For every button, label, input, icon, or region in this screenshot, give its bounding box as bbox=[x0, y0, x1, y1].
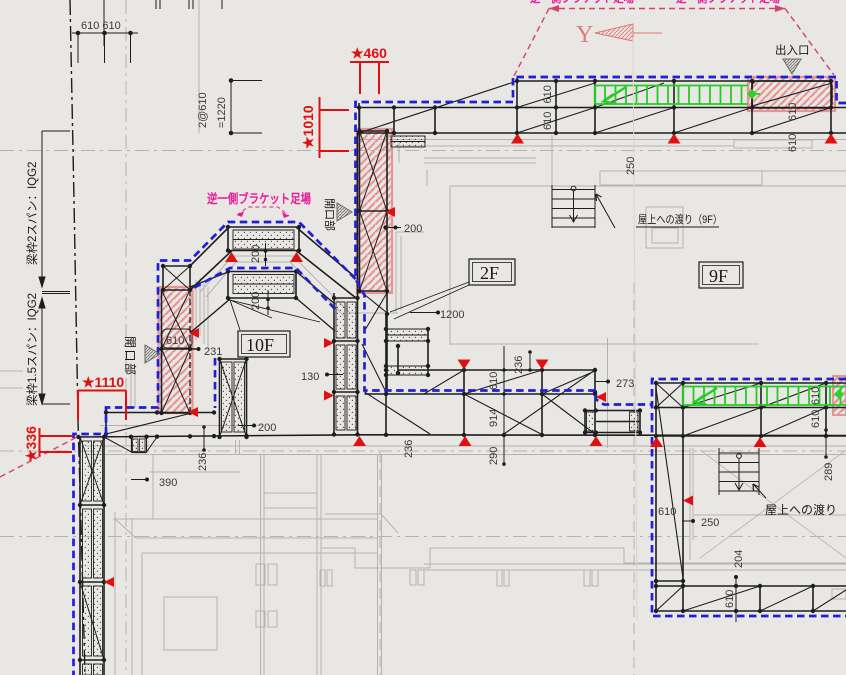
magenta clipped top texts bbox=[530, 0, 634, 5]
svg-text:200: 200 bbox=[250, 245, 262, 263]
gray hatched triangle kaikobu 2 bbox=[145, 345, 160, 363]
red star dims bbox=[23, 45, 387, 462]
dimension 610 610 top-left bbox=[72, 31, 138, 63]
building lines top right bbox=[450, 185, 846, 187]
svg-text:2@610: 2@610 bbox=[197, 92, 209, 128]
dim 236 left bbox=[203, 427, 205, 450]
svg-text:開口部: 開口部 bbox=[323, 198, 337, 231]
dim 204 bbox=[735, 577, 737, 622]
inner rounded border of top-right hatch bbox=[752, 81, 832, 108]
grid dashed line horizontal middle bbox=[0, 450, 846, 452]
dim stack 610/914/290 bbox=[503, 346, 505, 466]
svg-text:梁枠1.5スパン：IQG2: 梁枠1.5スパン：IQG2 bbox=[25, 293, 39, 406]
svg-text:9F: 9F bbox=[709, 266, 728, 286]
grid dashed vertical x634 bbox=[633, 283, 635, 675]
svg-text:204: 204 bbox=[733, 550, 745, 568]
red hatch mid-left column bbox=[159, 287, 193, 413]
svg-text:250: 250 bbox=[625, 157, 637, 175]
plank small top band left bbox=[391, 136, 425, 147]
svg-text:610: 610 bbox=[166, 335, 184, 347]
left slope rails bbox=[190, 227, 232, 290]
svg-text:200: 200 bbox=[250, 292, 262, 310]
dim 273 bbox=[595, 381, 608, 383]
svg-text:610 610: 610 610 bbox=[81, 20, 121, 32]
braces right band bbox=[362, 293, 595, 435]
building chamfer corner behind mountain bbox=[200, 256, 398, 313]
svg-text:610: 610 bbox=[724, 590, 736, 608]
red triangles down above y370 bbox=[458, 360, 471, 370]
green ladder top band bbox=[595, 86, 760, 105]
svg-text:236: 236 bbox=[403, 440, 415, 458]
floor boxes bbox=[238, 259, 743, 357]
svg-text:=1220: =1220 bbox=[216, 97, 228, 128]
svg-text:231: 231 bbox=[204, 346, 222, 358]
svg-text:610: 610 bbox=[787, 103, 799, 121]
red side triangles bbox=[189, 328, 199, 338]
svg-text:★1010: ★1010 bbox=[300, 105, 316, 149]
door frames bbox=[256, 564, 265, 585]
grid dashed line horizontal lower bbox=[0, 536, 846, 538]
small square room top right bbox=[646, 207, 683, 248]
dimension span arrows left bbox=[39, 131, 70, 404]
left edge small ticks bbox=[0, 371, 23, 388]
red triangles up mountain bbox=[225, 252, 238, 262]
leader 200 top (near hatch col) dots bbox=[394, 226, 398, 230]
Y axis marker bbox=[576, 22, 662, 48]
svg-text:610: 610 bbox=[542, 85, 554, 103]
svg-text:屋上への渡り: 屋上への渡り bbox=[765, 502, 837, 517]
svg-text:Y: Y bbox=[576, 22, 593, 48]
braces top band bbox=[359, 81, 832, 133]
svg-text:610: 610 bbox=[542, 112, 554, 130]
svg-text:200: 200 bbox=[258, 422, 276, 434]
red hatch left column (upper) bbox=[357, 129, 392, 293]
leader 1200 bbox=[410, 312, 438, 314]
top bay bbox=[228, 227, 299, 251]
dim 200 bracket top bbox=[265, 243, 267, 266]
node dots top band bbox=[357, 79, 833, 375]
svg-text:610: 610 bbox=[488, 372, 500, 390]
svg-text:236: 236 bbox=[513, 356, 525, 374]
red triangles up below main rail bbox=[353, 436, 366, 446]
leader lines 2F bbox=[390, 282, 469, 319]
rail y133 bbox=[359, 132, 846, 134]
second tier right slope bbox=[296, 272, 335, 332]
grid vertical x199 bbox=[198, 0, 200, 133]
svg-text:610: 610 bbox=[787, 134, 799, 152]
dim 289/610 right edge bbox=[825, 408, 827, 457]
gray hatched triangle deiriguchi bbox=[783, 59, 801, 74]
dim 231 bbox=[162, 348, 199, 350]
svg-text:390: 390 bbox=[159, 477, 177, 489]
svg-text:610: 610 bbox=[810, 387, 822, 405]
rail top y81 bbox=[517, 80, 832, 82]
RED triangles up below y133 bbox=[104, 134, 838, 588]
second tier left slope to column bbox=[190, 272, 230, 333]
RED dimensions bbox=[40, 62, 390, 456]
svg-text:289: 289 bbox=[823, 463, 835, 481]
svg-text:273: 273 bbox=[616, 378, 634, 390]
svg-text:914: 914 bbox=[488, 409, 500, 427]
building top edge bbox=[360, 139, 846, 141]
610 rounded tag bbox=[162, 329, 192, 348]
dim 250 right bbox=[682, 520, 693, 522]
wall double line middle bbox=[86, 446, 846, 455]
svg-text:開口部: 開口部 bbox=[123, 336, 138, 377]
building bar below top band right bbox=[734, 140, 812, 148]
svg-text:1200: 1200 bbox=[440, 309, 464, 321]
red hatch top-right rect bbox=[748, 77, 835, 111]
second tier bay bbox=[228, 272, 296, 299]
hatch column below square (x159-192) bbox=[161, 290, 163, 413]
svg-text:出入口: 出入口 bbox=[775, 43, 810, 57]
rail y107.5 bbox=[359, 107, 846, 109]
svg-text:屋上への渡り（9F）: 屋上への渡り（9F） bbox=[638, 212, 722, 226]
svg-text:610: 610 bbox=[658, 506, 676, 518]
chain line (kujikai) left bbox=[70, 0, 85, 675]
svg-text:★460: ★460 bbox=[351, 45, 387, 61]
svg-text:290: 290 bbox=[488, 447, 500, 465]
dim 236 mid bbox=[529, 352, 531, 370]
gray hatched triangle kaikobu 1 bbox=[337, 203, 352, 221]
svg-text:610: 610 bbox=[810, 410, 822, 428]
dimension 2@610=1220 line bbox=[229, 79, 262, 135]
red hatch right edge sliver bbox=[833, 376, 846, 415]
uprights top band bbox=[359, 78, 831, 133]
svg-text:★336: ★336 bbox=[23, 426, 39, 462]
dim 130 bbox=[327, 374, 343, 376]
svg-text:236: 236 bbox=[197, 453, 209, 471]
green ladder bottom right bbox=[683, 387, 846, 406]
crimson dashed construction top bbox=[514, 9, 834, 77]
mountain node dots bbox=[161, 225, 301, 300]
upper-left small square bay bbox=[163, 266, 190, 290]
dim 200 lower bbox=[238, 425, 254, 427]
gray wall bottom left rooms bbox=[115, 512, 132, 675]
plank stubs below rail x132-147 bbox=[132, 437, 147, 453]
dim 390 bbox=[131, 479, 147, 481]
underline for 9F note bbox=[636, 226, 719, 228]
right slope rails bbox=[296, 227, 356, 298]
top edge tick marks bbox=[104, 0, 222, 46]
bottom-right room cross bbox=[700, 450, 846, 558]
svg-text:2F: 2F bbox=[480, 263, 499, 283]
crimson dashed diagonal bottom left bbox=[0, 437, 77, 477]
columns bottom bbox=[320, 570, 325, 586]
svg-text:10F: 10F bbox=[246, 335, 274, 355]
svg-text:130: 130 bbox=[301, 371, 319, 383]
svg-text:逆一側ブラケット足場: 逆一側ブラケット足場 bbox=[207, 191, 311, 206]
svg-text:★1110: ★1110 bbox=[82, 374, 124, 390]
grid chain vertical x126 bbox=[125, 0, 127, 675]
svg-text:250: 250 bbox=[701, 517, 719, 529]
misc verticals around stairs top bbox=[450, 135, 758, 448]
plank strips bbox=[386, 329, 428, 375]
svg-text:梁枠2スパン：IQG2: 梁枠2スパン：IQG2 bbox=[25, 162, 39, 265]
pink grid vertical bbox=[633, 38, 637, 620]
svg-text:200: 200 bbox=[404, 223, 422, 235]
leader lines 10F bbox=[230, 300, 320, 330]
grid dashed vertical x380 bbox=[379, 452, 381, 675]
grid dashed line horizontal upper bbox=[0, 150, 846, 152]
red corner flag at blue step bbox=[596, 392, 606, 402]
